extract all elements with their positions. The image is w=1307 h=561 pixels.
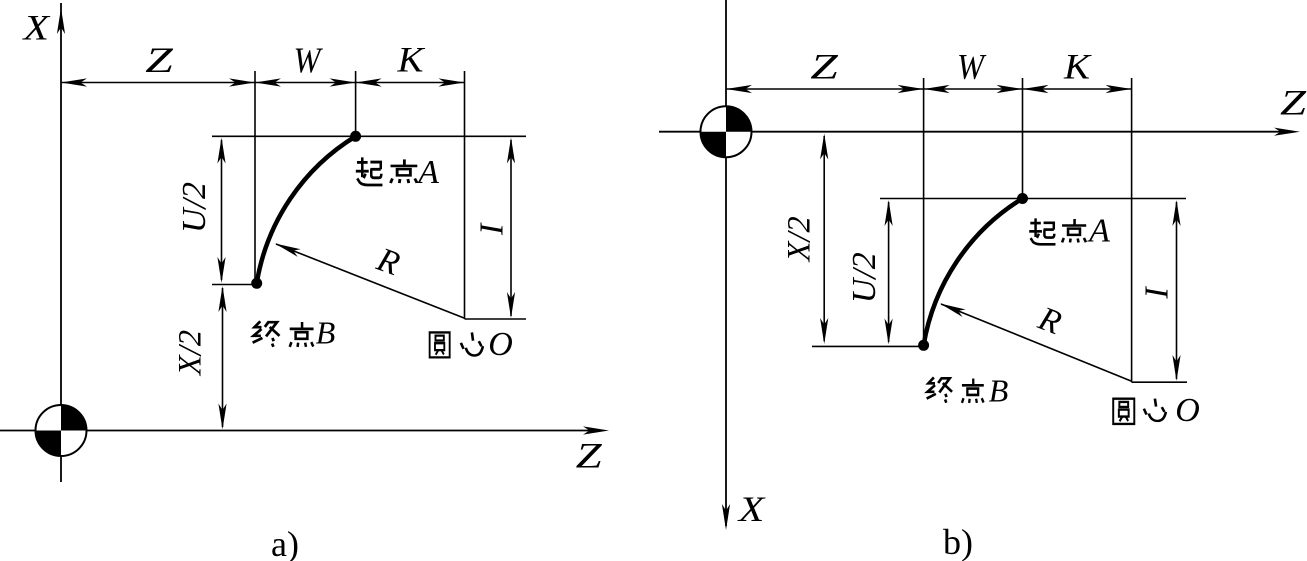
Z axis (b) — [659, 128, 1300, 136]
label X/2 (b) — [782, 216, 818, 263]
label 起点A (a) — [356, 154, 439, 191]
svg-text:B: B — [989, 373, 1009, 409]
dimension line Z-W-K (a) — [61, 78, 465, 86]
extension line through B (a) — [254, 71, 256, 283]
extension line through A (a) — [355, 71, 357, 136]
top horizontal line through A (b) — [880, 198, 1186, 200]
svg-text:U/2: U/2 — [846, 252, 883, 303]
svg-text:W: W — [294, 40, 324, 80]
extension line through O (b) — [1131, 78, 1133, 382]
line at O level (a) — [465, 318, 527, 320]
svg-text:U/2: U/2 — [176, 182, 213, 233]
svg-text:A: A — [1087, 213, 1110, 250]
X axis (b) — [722, 0, 730, 530]
svg-text:X: X — [736, 489, 766, 529]
point A dot (b) — [1017, 193, 1028, 204]
extension line through A (b) — [1022, 78, 1024, 198]
short line at B level (a) — [212, 284, 261, 286]
svg-text:X/2: X/2 — [173, 330, 209, 377]
label 圆心O (b) — [1113, 392, 1200, 429]
point B dot (a) — [251, 278, 262, 289]
svg-text:b): b) — [943, 522, 973, 561]
svg-text:X: X — [21, 8, 51, 48]
Z axis (a) — [0, 426, 609, 434]
label U/2 (a) — [176, 182, 213, 233]
dimension I (a) — [507, 138, 515, 319]
svg-text:I: I — [474, 222, 511, 236]
svg-text:B: B — [316, 315, 336, 351]
svg-text:a): a) — [271, 524, 299, 561]
svg-text:I: I — [1139, 286, 1176, 300]
svg-text:R: R — [371, 241, 404, 283]
extension line through B (b) — [923, 78, 925, 345]
label R (a) — [371, 241, 404, 283]
arc A to B (a) — [257, 136, 356, 283]
dimension line Z-W-K (b) — [726, 85, 1132, 93]
dimension U/2 (a) — [217, 138, 225, 284]
svg-text:K: K — [1063, 47, 1092, 87]
short line at B level (b) — [812, 345, 928, 347]
svg-text:Z: Z — [145, 40, 174, 80]
label I (b) — [1139, 286, 1176, 300]
radius line R (b) — [938, 300, 1131, 381]
dimension X/2 (b) — [820, 134, 828, 345]
point A dot (a) — [350, 131, 361, 142]
label R (b) — [1033, 300, 1067, 342]
point B dot (b) — [918, 340, 929, 351]
origin symbol (a) — [36, 405, 87, 456]
radius line R (a) — [273, 240, 464, 318]
label 圆心O (a) — [430, 326, 513, 363]
label 起点A (b) — [1029, 213, 1110, 250]
svg-text:Z: Z — [1280, 83, 1307, 123]
label X/2 (a) — [173, 330, 209, 377]
extension line through O (a) — [464, 71, 466, 319]
dimension I (b) — [1172, 200, 1180, 381]
label U/2 (b) — [846, 252, 883, 303]
dimension U/2 (b) — [885, 200, 893, 345]
svg-text:Z: Z — [810, 47, 839, 87]
arc A to B (b) — [924, 199, 1023, 346]
svg-text:K: K — [396, 40, 425, 80]
X axis (a) — [57, 3, 65, 482]
svg-text:A: A — [416, 154, 439, 191]
label I (a) — [474, 222, 511, 236]
label 终点B (b) — [927, 373, 1009, 409]
svg-text:X/2: X/2 — [782, 216, 818, 263]
svg-text:O: O — [1175, 392, 1200, 429]
svg-text:W: W — [957, 47, 987, 87]
dimension X/2 (a) — [218, 286, 226, 430]
origin symbol (b) — [701, 106, 752, 157]
svg-text:O: O — [488, 326, 513, 363]
line at O level (b) — [1132, 381, 1187, 383]
svg-text:R: R — [1033, 300, 1067, 342]
top horizontal line through A (a) — [212, 135, 526, 137]
svg-text:Z: Z — [576, 436, 603, 476]
label 终点B (a) — [253, 315, 336, 351]
